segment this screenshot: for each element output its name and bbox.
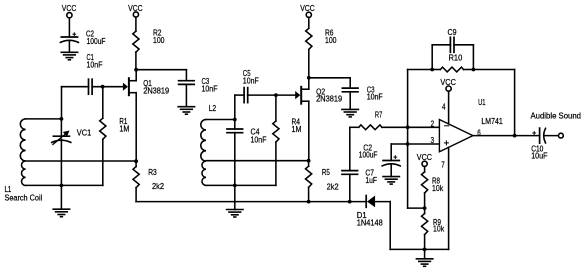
resistor R7 — [359, 110, 383, 129]
wire — [432, 45, 450, 70]
node noninverting-input junction — [406, 142, 410, 146]
wire — [206, 119, 235, 121]
svg-text:10nF: 10nF — [251, 135, 267, 144]
node R10-right junction — [472, 68, 476, 72]
ground (under second C2) — [383, 177, 399, 185]
ground (below L1/VC1) — [53, 209, 69, 217]
svg-text:Audible Sound: Audible Sound — [531, 112, 582, 121]
resistor R4 1M — [273, 118, 302, 143]
wire — [308, 17, 310, 28]
svg-text:U1: U1 — [478, 98, 485, 107]
svg-text:2k2: 2k2 — [327, 182, 339, 191]
svg-text:1M: 1M — [292, 125, 302, 134]
svg-text:R5: R5 — [322, 168, 331, 177]
node divider junction — [423, 206, 427, 210]
svg-text:2: 2 — [431, 119, 435, 128]
node Q1-drain junction — [134, 68, 138, 72]
wire — [454, 45, 474, 70]
wire — [391, 143, 439, 145]
wire — [407, 127, 409, 144]
svg-text:10k: 10k — [433, 225, 444, 234]
pin 2 label — [431, 119, 435, 128]
wire — [248, 94, 296, 96]
wire — [448, 91, 450, 124]
wire — [60, 185, 62, 209]
wire — [234, 133, 236, 186]
wire — [302, 78, 309, 89]
wire — [26, 160, 137, 162]
capacitor C1 10nF — [87, 53, 103, 94]
wire — [448, 147, 450, 249]
wire — [62, 87, 89, 119]
node inverting-input junction — [406, 125, 410, 129]
svg-text:10nF: 10nF — [87, 61, 103, 70]
resistor R10 — [440, 54, 463, 72]
svg-text:1N4148: 1N4148 — [357, 219, 383, 228]
wire — [130, 70, 137, 81]
audible sound label — [531, 112, 582, 121]
wire — [206, 160, 309, 162]
node Q2-gate junction — [274, 93, 278, 97]
node output junction — [513, 134, 517, 138]
svg-text:VCC: VCC — [300, 4, 315, 13]
svg-text:1uF: 1uF — [365, 176, 377, 185]
svg-text:R7: R7 — [375, 110, 382, 119]
wire — [350, 201, 367, 203]
svg-text:R3: R3 — [148, 168, 157, 177]
svg-text:VCC: VCC — [417, 153, 433, 162]
node C7-bottom junction — [348, 200, 352, 204]
svg-text:100: 100 — [153, 36, 165, 45]
wire — [130, 93, 137, 162]
svg-text:L1: L1 — [5, 185, 12, 194]
resistor R8 10k — [422, 172, 444, 193]
wire — [26, 118, 62, 120]
capacitor C4 10nF — [227, 128, 267, 145]
svg-text:10nF: 10nF — [243, 76, 259, 85]
svg-text:10nF: 10nF — [367, 93, 383, 102]
svg-text:3: 3 — [431, 136, 435, 145]
svg-text:VCC: VCC — [440, 78, 456, 87]
wire — [382, 126, 440, 128]
wire — [408, 70, 433, 128]
wire — [275, 142, 277, 185]
node L2-bottom junction — [233, 184, 237, 188]
wire — [235, 95, 244, 129]
resistor R5 2k2 — [306, 166, 339, 191]
svg-text:L2: L2 — [209, 104, 217, 113]
node L1-top junction — [60, 117, 64, 121]
wire — [136, 201, 309, 203]
wire — [102, 87, 104, 119]
inductor L2 — [201, 104, 216, 185]
svg-text:100uF: 100uF — [87, 37, 106, 46]
svg-text:10nF: 10nF — [202, 85, 218, 94]
wire — [275, 95, 277, 121]
svg-text:VCC: VCC — [128, 4, 143, 13]
ground (below R9) — [416, 259, 432, 267]
capacitor C2 100uF (at pin 3) — [359, 143, 400, 166]
node R3-top junction — [134, 159, 138, 163]
svg-text:100: 100 — [325, 36, 337, 45]
node R10-left junction — [430, 68, 434, 72]
ground (below L2/C4) — [227, 210, 243, 218]
svg-text:7: 7 — [441, 161, 445, 170]
wire — [390, 248, 448, 250]
wire — [135, 161, 137, 166]
wire — [135, 17, 137, 31]
capacitor C10 10uF — [531, 128, 548, 161]
wire — [135, 188, 137, 202]
wire — [432, 69, 473, 71]
wire — [473, 70, 514, 136]
wire — [424, 235, 426, 250]
power VCC (above R2) — [128, 4, 143, 17]
capacitor C5 10nF — [243, 69, 259, 102]
svg-text:2k2: 2k2 — [152, 182, 164, 191]
wire — [375, 202, 390, 250]
pin 4 label — [442, 103, 446, 112]
wire — [350, 126, 359, 128]
variable capacitor VC1 — [52, 129, 91, 145]
transistor Q2 2N3819 — [295, 87, 342, 104]
svg-text:2N3819: 2N3819 — [143, 86, 169, 95]
transistor Q1 2N3819 — [123, 78, 169, 95]
svg-text:2N3819: 2N3819 — [316, 94, 342, 103]
op-amp U1 LM741 — [439, 98, 502, 152]
wire — [136, 70, 186, 81]
wire — [424, 193, 426, 208]
svg-text:C9: C9 — [448, 28, 457, 37]
wire — [424, 249, 426, 258]
svg-text:4: 4 — [442, 103, 446, 112]
node R1-gate junction — [101, 85, 105, 89]
wire — [302, 101, 309, 161]
wire — [102, 139, 104, 185]
svg-text:1M: 1M — [119, 125, 129, 134]
node output terminal — [559, 133, 564, 138]
power VCC (above R6) — [300, 4, 315, 18]
capacitor C9 — [448, 28, 457, 52]
wire — [424, 208, 426, 213]
wire — [68, 18, 70, 37]
node L1-bottom junction — [60, 184, 64, 188]
svg-text:LM741: LM741 — [481, 117, 502, 126]
svg-text:R10: R10 — [449, 54, 463, 63]
svg-text:Search Coil: Search Coil — [5, 194, 43, 203]
ground (under second C3) — [342, 109, 358, 117]
wire — [60, 119, 62, 185]
wire — [424, 166, 426, 172]
node Q2-source junction — [307, 159, 311, 163]
node R5-bottom junction — [307, 200, 311, 204]
wire — [206, 184, 276, 186]
ground (under C2) — [61, 52, 77, 60]
capacitor C3 10nF (Q2 drain) — [342, 85, 383, 101]
pin 7 label — [441, 161, 445, 170]
wire — [26, 184, 103, 186]
diode D1 1N4148 — [357, 196, 383, 228]
resistor R1 1M — [100, 117, 130, 139]
power VCC (top-left) — [62, 4, 77, 18]
capacitor C2 100uF (decoupling) — [60, 29, 105, 46]
wire — [135, 52, 137, 70]
svg-text:10k: 10k — [432, 184, 443, 193]
ground (under C3) — [178, 107, 194, 115]
wire — [308, 161, 310, 167]
pin 6 label — [477, 128, 481, 137]
svg-text:VC1: VC1 — [77, 129, 91, 138]
node ground junction — [423, 248, 427, 252]
wire — [185, 84, 187, 106]
svg-text:VCC: VCC — [62, 4, 77, 13]
wire — [349, 127, 351, 170]
wire — [349, 174, 351, 201]
wire — [234, 185, 236, 209]
resistor R6 100 — [306, 28, 337, 49]
node Q2-drain junction — [307, 76, 311, 80]
wire — [390, 164, 392, 177]
wire — [92, 86, 123, 88]
power VCC (op-amp pin 4) — [440, 78, 456, 91]
wire — [309, 201, 350, 203]
resistor R3 2k2 — [133, 167, 164, 191]
wire — [309, 78, 350, 88]
pin 3 label — [431, 136, 435, 145]
wire — [408, 144, 425, 208]
resistor R9 10k — [422, 214, 445, 235]
wire — [544, 135, 558, 137]
wire — [308, 49, 310, 77]
wire — [473, 135, 540, 137]
capacitor C3 10nF (Q1 drain) — [179, 77, 218, 94]
capacitor C7 1uF — [342, 169, 377, 185]
wire — [308, 187, 310, 201]
wire — [390, 144, 392, 161]
svg-text:10uF: 10uF — [531, 152, 548, 161]
resistor R2 100 — [133, 29, 165, 53]
inductor L1 — [5, 119, 43, 203]
svg-text:100uF: 100uF — [359, 150, 378, 159]
wire — [349, 92, 351, 110]
node L2-top junction — [233, 118, 237, 122]
wire — [68, 40, 70, 52]
power VCC (above R8) — [417, 153, 433, 166]
